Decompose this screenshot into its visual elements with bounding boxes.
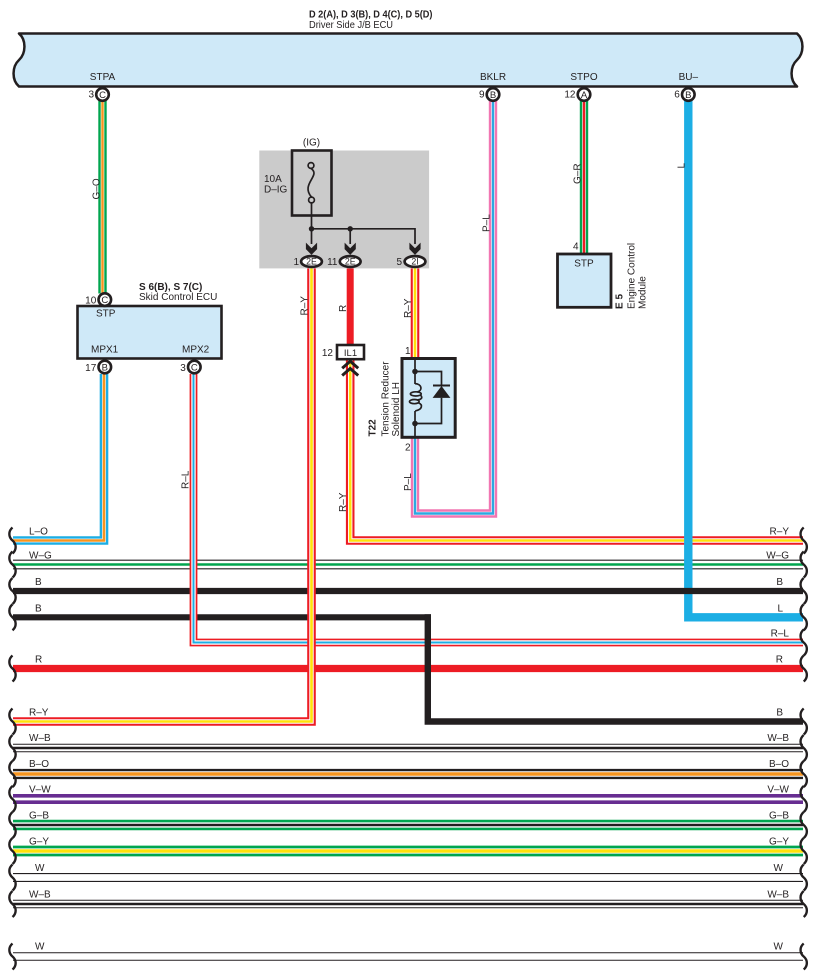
svg-text:E 5: E 5 bbox=[615, 294, 626, 309]
squiggle row5 right bbox=[801, 630, 807, 656]
squiggle row12 left bbox=[9, 838, 15, 864]
svg-text:C: C bbox=[99, 90, 106, 101]
svg-text:11: 11 bbox=[327, 257, 338, 268]
wire V-W: row 10 bbox=[13, 794, 803, 804]
junction wiring below fuse bbox=[312, 203, 416, 244]
pin 6 B of bus bbox=[674, 88, 694, 101]
svg-text:1: 1 bbox=[405, 346, 411, 357]
squiggle row1 left bbox=[9, 528, 15, 554]
svg-text:B: B bbox=[776, 708, 783, 719]
svg-text:W: W bbox=[35, 863, 45, 874]
wire G-O: STPA to Skid ECU pin 10 bbox=[98, 101, 106, 294]
svg-text:STPA: STPA bbox=[90, 72, 116, 83]
svg-text:5: 5 bbox=[396, 257, 402, 268]
svg-text:V–W: V–W bbox=[29, 785, 51, 796]
pin 3 C of bus bbox=[88, 88, 108, 101]
wire W-B: row 14 bbox=[13, 900, 803, 908]
svg-text:B: B bbox=[102, 363, 108, 374]
svg-text:B–O: B–O bbox=[769, 759, 789, 770]
wire B: row 3 bbox=[13, 588, 803, 594]
arrowhead into pin 1 bbox=[306, 243, 317, 255]
svg-text:R–L: R–L bbox=[771, 629, 790, 640]
svg-text:2I: 2I bbox=[411, 257, 418, 267]
squiggle row14 left bbox=[9, 891, 15, 917]
arrowhead into pin 5 bbox=[409, 243, 420, 255]
svg-text:1: 1 bbox=[293, 257, 299, 268]
svg-text:W–B: W–B bbox=[29, 733, 51, 744]
svg-text:2E: 2E bbox=[306, 257, 317, 267]
junction dot at fuse output bbox=[309, 226, 314, 231]
junction dot bottom bbox=[412, 421, 418, 427]
wire B: row 4 left bbox=[13, 614, 431, 620]
junction dot branch 2 bbox=[348, 226, 353, 231]
svg-text:R: R bbox=[338, 305, 349, 312]
svg-text:R–Y: R–Y bbox=[29, 708, 49, 719]
svg-text:L–O: L–O bbox=[29, 527, 48, 538]
svg-text:STP: STP bbox=[96, 309, 116, 320]
svg-text:12: 12 bbox=[322, 348, 334, 359]
svg-text:R: R bbox=[776, 655, 783, 666]
squiggle row6 left bbox=[9, 656, 15, 682]
squiggle row13 right bbox=[801, 865, 807, 891]
svg-text:R–Y: R–Y bbox=[300, 296, 311, 316]
svg-text:4: 4 bbox=[573, 242, 579, 253]
wire W-G: row 2 bbox=[13, 560, 803, 570]
svg-text:B–O: B–O bbox=[29, 759, 49, 770]
pin 10 C bbox=[85, 293, 111, 306]
wire R-Y: from fuse pin 1 (2E) down, left to edge (row 7 left) bbox=[13, 268, 312, 722]
squiggle row3 left bbox=[9, 578, 15, 604]
solenoid internal wiring bbox=[415, 359, 442, 438]
squiggle row2 left bbox=[9, 552, 15, 578]
diode bbox=[433, 386, 451, 398]
svg-text:C: C bbox=[101, 295, 108, 306]
svg-text:3: 3 bbox=[88, 89, 94, 100]
svg-text:G–B: G–B bbox=[769, 811, 789, 822]
squiggle row3 right bbox=[801, 578, 807, 604]
svg-text:Solenoid LH: Solenoid LH bbox=[391, 382, 402, 436]
squiggle row2 right bbox=[801, 552, 807, 578]
svg-text:Driver Side J/B ECU: Driver Side J/B ECU bbox=[309, 19, 393, 31]
svg-text:W–G: W–G bbox=[766, 551, 789, 562]
squiggle row7 left bbox=[9, 709, 15, 735]
squiggle row10 right bbox=[801, 786, 807, 812]
svg-text:3: 3 bbox=[180, 363, 186, 374]
pin 3 C bbox=[180, 361, 200, 374]
wire R-Y: from IL1 chevron down, right to edge (row1 right) bbox=[350, 359, 803, 540]
fuse element symbol bbox=[308, 163, 314, 203]
svg-text:6: 6 bbox=[674, 89, 680, 100]
IL1 box bbox=[322, 345, 364, 359]
squiggle row12 right bbox=[801, 838, 807, 864]
squiggle row15 left bbox=[9, 944, 15, 970]
squiggle row8 left bbox=[9, 735, 15, 761]
wire R: row 6 bbox=[13, 665, 803, 672]
wire R-L: from Skid ECU pin 3 down, right to edge (row 5) bbox=[194, 374, 804, 643]
coil bbox=[410, 384, 422, 411]
arrowhead into pin 11 bbox=[345, 243, 356, 255]
squiggle row10 left bbox=[9, 786, 15, 812]
svg-text:(IG): (IG) bbox=[303, 138, 320, 149]
svg-text:L: L bbox=[677, 163, 688, 169]
pin oval 11 2E bbox=[327, 256, 360, 268]
squiggle row4 right bbox=[801, 604, 807, 630]
E 5 Engine Control Module box bbox=[558, 254, 612, 307]
svg-text:Tension Reducer: Tension Reducer bbox=[381, 361, 392, 437]
svg-text:W: W bbox=[774, 941, 784, 952]
svg-text:STP: STP bbox=[574, 259, 594, 270]
svg-text:G–O: G–O bbox=[92, 178, 103, 199]
svg-text:R–L: R–L bbox=[181, 470, 192, 489]
svg-text:D–IG: D–IG bbox=[264, 185, 288, 196]
svg-text:STPO: STPO bbox=[570, 72, 597, 83]
svg-text:V–W: V–W bbox=[767, 785, 789, 796]
squiggle row9 left bbox=[9, 761, 15, 787]
svg-text:W–G: W–G bbox=[29, 551, 52, 562]
svg-text:W–B: W–B bbox=[767, 890, 789, 901]
svg-text:MPX1: MPX1 bbox=[91, 345, 119, 356]
svg-text:P–L: P–L bbox=[482, 214, 493, 232]
svg-text:W: W bbox=[774, 863, 784, 874]
wire G-Y: row 12 bbox=[13, 846, 803, 857]
wire G-R: STPO to E5 bbox=[580, 101, 588, 256]
svg-text:T22: T22 bbox=[368, 419, 379, 437]
T22 Tension Reducer Solenoid LH box bbox=[402, 359, 455, 438]
wire B-O: row 9 bbox=[13, 769, 803, 779]
wire G-B: row 11 bbox=[13, 820, 803, 831]
squiggle row13 left bbox=[9, 865, 15, 891]
svg-text:G–R: G–R bbox=[573, 163, 584, 184]
svg-text:W–B: W–B bbox=[29, 890, 51, 901]
squiggle row6 right bbox=[801, 656, 807, 682]
svg-text:IL1: IL1 bbox=[344, 348, 357, 359]
pin oval 1 2E bbox=[293, 256, 321, 268]
svg-text:B: B bbox=[685, 90, 691, 101]
svg-text:10A: 10A bbox=[264, 174, 282, 185]
gray junction block bbox=[259, 151, 429, 269]
wire W: row 13 bbox=[13, 873, 803, 882]
squiggle row9 right bbox=[801, 761, 807, 787]
svg-text:2E: 2E bbox=[345, 257, 356, 267]
svg-text:Engine Control: Engine Control bbox=[627, 243, 638, 309]
svg-text:C: C bbox=[191, 363, 198, 374]
pin oval 5 2I bbox=[396, 256, 425, 268]
wire W: row 15 bbox=[13, 952, 803, 961]
svg-text:10: 10 bbox=[85, 296, 97, 307]
wire R-Y: fuse pin 5 (2I) to solenoid pin 1 bbox=[411, 268, 420, 360]
svg-text:W: W bbox=[35, 941, 45, 952]
svg-text:G–Y: G–Y bbox=[29, 837, 49, 848]
squiggle row1 right bbox=[801, 528, 807, 554]
svg-text:R–Y: R–Y bbox=[770, 527, 790, 538]
svg-text:Skid Control ECU: Skid Control ECU bbox=[139, 292, 217, 303]
svg-text:17: 17 bbox=[85, 363, 97, 374]
svg-text:MPX2: MPX2 bbox=[182, 345, 210, 356]
svg-text:G–Y: G–Y bbox=[769, 837, 789, 848]
svg-text:Module: Module bbox=[638, 276, 649, 309]
svg-text:W–B: W–B bbox=[767, 733, 789, 744]
Skid Control ECU box bbox=[78, 306, 222, 359]
fuse 10A D-IG box bbox=[292, 151, 332, 216]
pin 17 B bbox=[85, 361, 111, 374]
svg-text:P–L: P–L bbox=[403, 473, 414, 491]
wire B elbow: row4 corner down to row 7 right bbox=[428, 614, 803, 721]
svg-text:R–Y: R–Y bbox=[403, 298, 414, 318]
svg-text:B: B bbox=[35, 603, 42, 614]
squiggle row14 right bbox=[801, 891, 807, 917]
squiggle row7 right bbox=[801, 709, 807, 735]
svg-text:R–Y: R–Y bbox=[338, 492, 349, 512]
svg-text:G–B: G–B bbox=[29, 811, 49, 822]
Driver Side J/B ECU bus bar bbox=[14, 34, 803, 87]
svg-text:2: 2 bbox=[405, 443, 411, 454]
squiggle row15 right bbox=[801, 944, 807, 970]
wire L: from BU- pin down, right to edge (row4 right) bbox=[688, 101, 803, 617]
wire R: fuse pin 11 (2E) to IL1 bbox=[347, 268, 354, 346]
squiggle row11 right bbox=[801, 812, 807, 838]
svg-text:B: B bbox=[490, 90, 496, 101]
svg-text:BU–: BU– bbox=[679, 72, 699, 83]
svg-text:L: L bbox=[777, 603, 783, 614]
svg-text:A: A bbox=[581, 90, 588, 101]
pin 9 B of bus bbox=[479, 88, 499, 101]
squiggle row11 left bbox=[9, 812, 15, 838]
svg-text:9: 9 bbox=[479, 89, 485, 100]
junction dot top bbox=[412, 369, 418, 375]
wire L-O: from Skid ECU pin 17 down and left to edge bbox=[13, 374, 104, 541]
squiggle row4 left bbox=[9, 604, 15, 630]
svg-text:B: B bbox=[35, 577, 42, 588]
wire P-L: solenoid pin2 down, right, up to BKLR bbox=[415, 101, 493, 514]
squiggle row8 right bbox=[801, 735, 807, 761]
chevron marks below IL1 bbox=[342, 361, 358, 375]
svg-text:12: 12 bbox=[564, 89, 576, 100]
wire W-B: row 8 bbox=[13, 744, 803, 752]
svg-text:R: R bbox=[35, 655, 42, 666]
svg-text:BKLR: BKLR bbox=[480, 72, 506, 83]
svg-text:B: B bbox=[776, 577, 783, 588]
pin 12 A of bus bbox=[564, 88, 590, 101]
